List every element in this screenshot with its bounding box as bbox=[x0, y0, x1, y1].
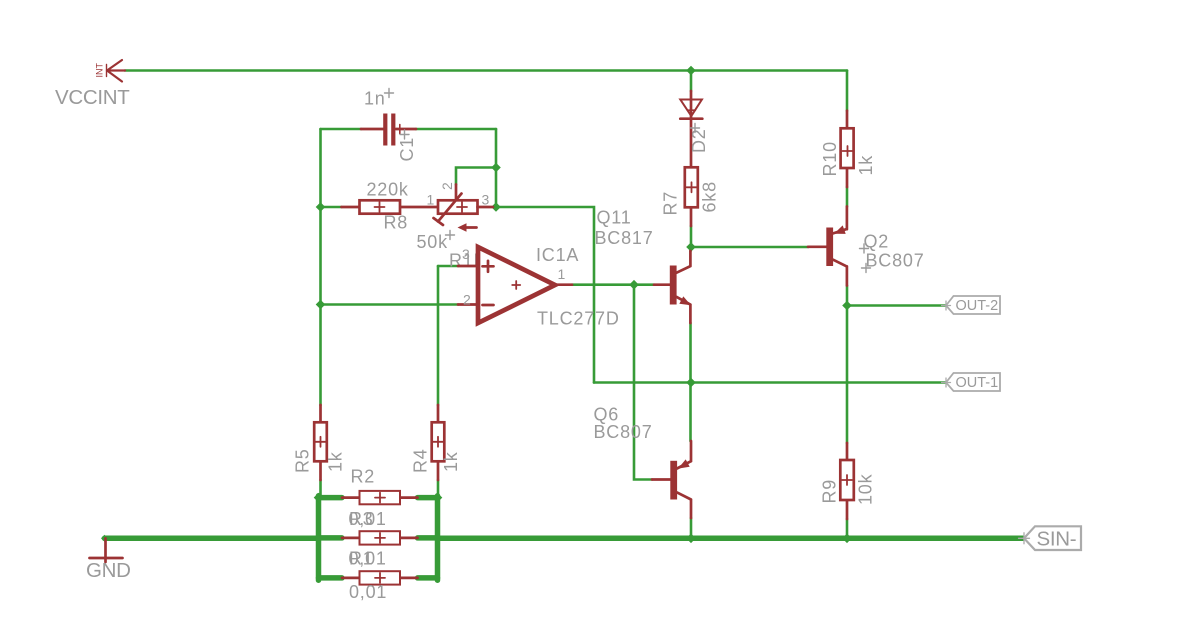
wire stub row2 left bbox=[319, 535, 343, 541]
wire OUT-1 horizontal bbox=[594, 381, 946, 384]
wire Q11 emitter to Q6 emitter bbox=[689, 323, 692, 441]
supply VCCINT symbol bbox=[95, 60, 126, 82]
wire top rail to R10 bbox=[846, 71, 849, 111]
svg-text:0,01: 0,01 bbox=[349, 549, 387, 569]
svg-text:C1: C1 bbox=[397, 137, 417, 162]
wire C1 left lead bbox=[321, 128, 362, 131]
transistor Q2 bbox=[808, 207, 847, 286]
wire stub row3 right bbox=[418, 575, 438, 581]
wire VCCINT top rail bbox=[125, 69, 847, 72]
wire OUT-2 node to R9 bbox=[846, 306, 849, 444]
wire op-amp output bbox=[572, 283, 654, 286]
svg-text:50k: 50k bbox=[417, 232, 449, 252]
potentiometer R1 50k bbox=[434, 185, 494, 232]
C1 name origin cross bbox=[400, 130, 409, 139]
wire Q11 collector to node bbox=[689, 247, 692, 251]
svg-text:IC1A: IC1A bbox=[536, 245, 579, 265]
wire feedback node to OUT-1 column bbox=[496, 207, 594, 383]
wire op-amp +input bbox=[438, 265, 458, 268]
svg-text:0,01: 0,01 bbox=[349, 509, 387, 529]
wire top rail to D2 bbox=[690, 71, 693, 92]
svg-text:1n: 1n bbox=[364, 89, 386, 109]
node pot pin3 / feedback bbox=[491, 202, 501, 212]
D2 text origin cross bbox=[691, 124, 700, 133]
resistor R2 (row 1) bbox=[342, 491, 418, 504]
resistor R10 bbox=[841, 111, 854, 187]
node op-amp output bbox=[629, 280, 639, 290]
svg-text:R9: R9 bbox=[820, 479, 840, 504]
svg-text:TLC277D: TLC277D bbox=[537, 309, 620, 329]
wire stub row2 right bbox=[418, 535, 438, 541]
wire output node to Q6 base bbox=[634, 285, 652, 480]
wire R7 to node bbox=[690, 226, 693, 247]
node GND on bus bbox=[101, 535, 108, 542]
wire R4 bottom lead bbox=[437, 480, 440, 496]
wire Q6 collector to bus bbox=[690, 518, 693, 538]
svg-text:1: 1 bbox=[427, 192, 435, 208]
transistor Q11 bbox=[654, 251, 691, 323]
svg-text:1: 1 bbox=[558, 266, 566, 282]
svg-text:220k: 220k bbox=[367, 180, 409, 200]
node OUT-2 / Q2 collector bbox=[842, 301, 852, 311]
resistor R1 (row 3) bbox=[342, 571, 418, 584]
flag OUT-2 bbox=[946, 296, 1000, 314]
node R7 / Q11 collector / Q2 base bbox=[686, 242, 696, 252]
op-amp IC1A bbox=[458, 247, 572, 323]
node OUT-1 / emitters bbox=[686, 378, 696, 388]
resistor R7 bbox=[685, 167, 698, 226]
svg-text:BC807: BC807 bbox=[866, 251, 925, 271]
svg-text:3: 3 bbox=[482, 192, 490, 208]
svg-text:OUT-1: OUT-1 bbox=[956, 375, 999, 391]
wire R9 to bus bbox=[846, 519, 849, 537]
wire right vertical C1 to pot pin3 bbox=[495, 129, 498, 207]
FLAGS bbox=[942, 296, 1082, 551]
wire OUT-2 horizontal bbox=[847, 304, 946, 307]
svg-text:SIN-: SIN- bbox=[1037, 528, 1077, 551]
transistor Q6 bbox=[652, 441, 691, 518]
node pot pin2 bbox=[491, 163, 501, 173]
ground symbol GND bbox=[90, 538, 123, 562]
wire node to R8 bbox=[321, 206, 342, 209]
svg-text:2: 2 bbox=[439, 182, 455, 190]
resistor R5 bbox=[314, 405, 327, 480]
Q2 text origin crosses bbox=[860, 244, 871, 273]
svg-text:INT: INT bbox=[95, 63, 105, 78]
node Q6 collector on bus bbox=[686, 534, 696, 544]
thick bus wires bbox=[105, 496, 1024, 580]
node R5 / parallel-R left bbox=[314, 493, 324, 503]
wire bus right segment to SIN- bbox=[438, 536, 1024, 542]
svg-text:2: 2 bbox=[463, 292, 471, 308]
node op-amp -input tap bbox=[316, 300, 326, 310]
wire C1 right lead bbox=[416, 128, 496, 131]
svg-text:3: 3 bbox=[462, 246, 470, 262]
svg-text:R10: R10 bbox=[820, 141, 840, 176]
wire node to Q2 base bbox=[691, 246, 808, 249]
wire +input to R4 bbox=[437, 266, 440, 405]
svg-text:R5: R5 bbox=[293, 448, 313, 473]
svg-text:BC807: BC807 bbox=[594, 422, 653, 442]
wire left vertical C1 to R5 bbox=[319, 129, 322, 405]
resistor R9 bbox=[840, 443, 854, 519]
resistor R8 bbox=[342, 200, 439, 213]
wire stub row1 left bbox=[319, 495, 343, 501]
svg-text:10k: 10k bbox=[856, 473, 876, 505]
svg-text:GND: GND bbox=[86, 559, 131, 582]
svg-text:1k: 1k bbox=[856, 155, 876, 176]
svg-text:0,01: 0,01 bbox=[349, 582, 387, 602]
svg-text:1k: 1k bbox=[326, 451, 346, 472]
node top rail / D2 bbox=[686, 66, 696, 76]
svg-text:R8: R8 bbox=[384, 213, 409, 233]
svg-text:OUT-2: OUT-2 bbox=[956, 298, 999, 314]
wire parallel-R left vertical bbox=[316, 496, 322, 580]
wire R10 to Q2 emitter bbox=[846, 187, 849, 207]
diode D2 bbox=[680, 91, 702, 167]
svg-text:R2: R2 bbox=[351, 467, 376, 487]
resistor R3 (row 2) bbox=[342, 531, 418, 544]
svg-text:1k: 1k bbox=[441, 451, 461, 472]
wire GND bus left segment bbox=[105, 536, 319, 542]
svg-text:R4: R4 bbox=[411, 448, 431, 473]
C1 text origin cross bbox=[385, 89, 394, 98]
svg-text:R7: R7 bbox=[661, 191, 681, 216]
wire pot pin2 to node bbox=[456, 168, 496, 185]
capacitor C1 bbox=[361, 114, 416, 146]
wire Q2 collector to OUT-2 node bbox=[846, 286, 849, 306]
wire R5 bottom lead bbox=[319, 480, 322, 496]
svg-text:BC817: BC817 bbox=[595, 228, 654, 248]
node R8 left bbox=[316, 202, 326, 212]
svg-text:D2: D2 bbox=[689, 128, 709, 153]
flag OUT-1 bbox=[946, 373, 1000, 391]
node R9 on bus bbox=[842, 534, 852, 544]
50k origin cross bbox=[446, 231, 455, 240]
wire op-amp -input bbox=[321, 303, 459, 306]
flag SIN- bbox=[1024, 526, 1081, 550]
node R4 / parallel-R right bbox=[433, 493, 443, 503]
resistor R4 bbox=[432, 405, 445, 480]
svg-text:Q11: Q11 bbox=[597, 208, 632, 228]
svg-text:6k8: 6k8 bbox=[700, 181, 720, 212]
wire parallel-R right vertical bbox=[435, 496, 441, 580]
wire stub row3 left bbox=[319, 575, 343, 581]
wire stub row1 right bbox=[418, 495, 438, 501]
svg-text:VCCINT: VCCINT bbox=[55, 86, 130, 109]
wire pot pin3 to node bbox=[493, 206, 496, 209]
